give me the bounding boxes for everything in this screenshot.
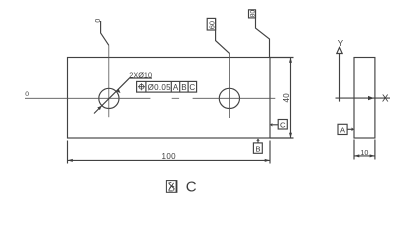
- Y axis open arrowhead: [337, 48, 342, 54]
- svg-text:80: 80: [250, 10, 257, 18]
- svg-text:B: B: [255, 145, 260, 154]
- arrowhead at lower circle edge: [97, 106, 101, 110]
- svg-text:0: 0: [25, 91, 29, 98]
- svg-text:60: 60: [207, 21, 216, 29]
- dimension 100 extension lines: [68, 141, 271, 164]
- dimension 100 line: [68, 159, 271, 161]
- caption glyph 图 (hand-drawn): [166, 180, 177, 192]
- boxed basic dimension 80 rotated: [249, 10, 256, 18]
- horizontal centerline left segment with origin 0: [25, 97, 275, 99]
- svg-text:A: A: [340, 125, 346, 134]
- feature control frame (position Ø0.05 A B C): [137, 81, 197, 92]
- side view rectangle (thickness 10): [354, 58, 375, 139]
- dimension 40 line: [290, 58, 292, 139]
- svg-text:C: C: [186, 178, 197, 195]
- dimension 10 extension lines: [354, 140, 375, 160]
- dimension 10 line: [354, 155, 375, 157]
- svg-text:40: 40: [282, 93, 291, 103]
- svg-text:0: 0: [95, 19, 102, 23]
- svg-text:2XØ10: 2XØ10: [129, 70, 152, 79]
- position symbol: [138, 83, 145, 90]
- Y axis line: [339, 54, 341, 102]
- boxed basic dimension 60 rotated: [207, 18, 215, 30]
- svg-text:B: B: [181, 83, 186, 92]
- arrowhead at upper circle edge: [116, 89, 120, 93]
- svg-text:10: 10: [360, 148, 368, 157]
- plate outline (front view 100x40): [68, 58, 271, 139]
- arrowhead top: [289, 58, 292, 63]
- svg-text:Y: Y: [338, 39, 344, 48]
- svg-text:X: X: [382, 94, 389, 105]
- arrowhead right: [370, 154, 375, 157]
- X axis filled arrowhead: [368, 96, 374, 100]
- hole H2 circle (Ø10): [219, 88, 239, 108]
- svg-text:C: C: [189, 83, 195, 92]
- ordinate leader 3 (right edge, value 80): [256, 10, 270, 58]
- hole H1 circle (Ø10): [99, 88, 119, 108]
- diameter dimension line through hole H1: [94, 78, 152, 114]
- svg-text:100: 100: [162, 152, 177, 161]
- datum A symbol: [338, 124, 347, 134]
- arrowhead right: [265, 159, 270, 162]
- X axis line: [336, 97, 391, 99]
- ordinate leader 2 (hole H2, value 60): [216, 19, 230, 54]
- hole H1 vertical centerline: [108, 45, 110, 117]
- svg-text:Ø0.05: Ø0.05: [148, 83, 172, 92]
- dimension 40 extension lines: [270, 58, 294, 139]
- hole H2 vertical centerline: [229, 53, 231, 118]
- datum B symbol: [256, 139, 259, 141]
- arrowhead left: [354, 154, 359, 157]
- svg-text:C: C: [280, 120, 286, 129]
- svg-text:A: A: [173, 83, 179, 92]
- arrowhead bottom: [289, 133, 292, 138]
- ordinate leader 1 (hole H1, value 0): [101, 21, 109, 45]
- datum C symbol: [270, 123, 273, 126]
- arrowhead left: [68, 159, 73, 162]
